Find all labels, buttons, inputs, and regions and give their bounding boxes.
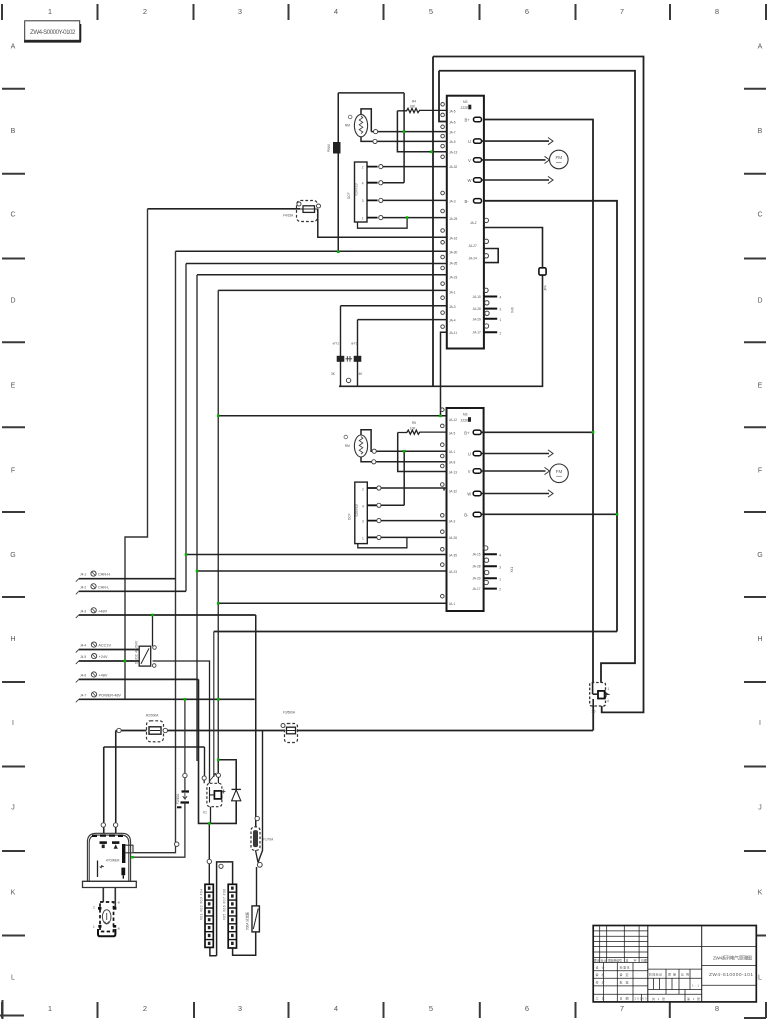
terminal strip XT1 [200,884,214,947]
fuse F2/10A inline on riser x=185 [176,773,189,807]
wire Y1 leg to JA-3 row [341,305,447,307]
arrowhead W [548,176,553,183]
svg-text:W: W [468,178,472,183]
svg-text:JA-29: JA-29 [473,317,482,321]
svg-text:第 1 张: 第 1 张 [687,996,700,1001]
svg-text:RM: RM [345,444,350,448]
arrowhead V [545,156,550,163]
svg-text:L: L [758,975,762,982]
svg-text:2: 2 [143,7,147,16]
svg-text:V: V [468,469,471,474]
svg-text:U: U [468,139,471,144]
svg-text:ZW4-S0000Y-0102: ZW4-S0000Y-0102 [30,29,76,36]
svg-text:500A 分流器: 500A 分流器 [245,911,250,930]
left edge row tick marks [2,89,25,936]
wire branch x=262.5 from rail down to F1 merge [258,731,263,863]
svg-text:JA-7: JA-7 [449,131,456,135]
svg-text:3: 3 [362,520,364,524]
fuse F1/70A (dark body) [251,816,274,850]
svg-text:⊕: ⊕ [118,901,121,905]
svg-text:JA-17: JA-17 [473,331,482,335]
svg-text:4: 4 [334,1004,338,1013]
svg-text:K1: K1 [203,811,207,815]
svg-text:J4-6: J4-6 [80,674,86,678]
svg-text:日期: 日期 [641,957,647,962]
plug outline right [125,845,133,853]
wire V phase lower motor [481,470,545,472]
wire row6 corner into relay box left edge [197,678,199,680]
title block texts [594,957,700,1001]
wire valve1 pinA to JA-32 row [383,166,447,168]
wire valve1 pinD to JA-25 row [383,217,447,219]
svg-text:R5: R5 [412,421,416,425]
svg-text:7: 7 [620,7,624,16]
wire valve1 pinB to riser x=404 [383,182,404,184]
svg-text:J4-7: J4-7 [80,693,86,697]
svg-text:PWM: PWM [327,144,331,152]
svg-text:4: 4 [334,7,338,16]
svg-text:F4/15A: F4/15A [283,214,294,218]
wire x=593 below connector X5 to fuse rail [592,706,594,731]
relay box outline (open) [199,679,237,823]
svg-text:V: V [468,158,471,163]
wire long horizontal y=631.5 [214,631,617,633]
main vertical dividers [648,926,702,1002]
wire loop stub y=92.9 from x=338 box [338,92,404,94]
wire JA-23 row from riser [197,274,447,276]
lower IC right side labels [464,430,471,517]
svg-text:2: 2 [93,906,95,910]
svg-text:+24V: +24V [99,655,108,659]
wire y=759.5 stub from riser to diode branch [218,760,236,761]
svg-text:JA-3: JA-3 [449,305,456,309]
wire W phase upper motor [482,179,550,181]
svg-text:更改单编号: 更改单编号 [608,957,622,962]
svg-text:5: 5 [429,7,433,16]
wire riser x=218.4 into relay [217,760,219,776]
top ruler column numbers [48,7,719,16]
wire valve2 pinD hook under box [358,537,407,547]
svg-text:共 1 张: 共 1 张 [652,996,665,1001]
wire F1 to merge point [256,850,259,862]
svg-text:Y2V/Y1V: Y2V/Y1V [355,182,359,196]
upper IC bottom-right connector X40 pins [473,288,515,335]
svg-text:JA-32: JA-32 [449,489,458,493]
wire feeder to F4 from far-left riser [148,208,301,210]
svg-text:#05 #06 #07 #08: #05 #06 #07 #08 [223,889,227,920]
svg-text:JA-32: JA-32 [449,165,458,169]
svg-text:F1/70A: F1/70A [263,838,274,842]
svg-text:JA-28: JA-28 [472,565,481,569]
svg-text:L: L [11,975,15,982]
svg-text:J4-3: J4-3 [80,609,86,613]
svg-text:DC/DC 48V/24V: DC/DC 48V/24V [135,640,139,664]
svg-text:设 计: 设 计 [596,964,605,969]
middle small verticals [654,969,690,1002]
svg-text:F2/10A: F2/10A [176,793,180,804]
wire row POWER-48V [79,698,255,700]
pin circle RM1 top wire [374,130,378,134]
svg-text:质量: 质量 [668,972,676,977]
arrowhead W lower [548,490,553,497]
terminal JP4 on x=542.5 [539,268,548,291]
wire row ACC [79,649,139,651]
svg-text:JA-1: JA-1 [449,450,456,454]
relay coil K1 (dashed) [202,773,225,823]
fuse F3/500A (dashed box) [281,711,298,743]
pin circle RM2 bottom wire [372,460,376,464]
wire valve1 pinC to JA-3 row [383,199,447,201]
svg-text:J4-1: J4-1 [80,573,86,577]
wire JA-30 row from riser [176,250,447,252]
svg-text:1: 1 [48,7,52,16]
svg-text:1: 1 [93,925,95,929]
svg-text:JA-23: JA-23 [449,570,458,574]
svg-text:3: 3 [500,308,502,312]
document number box top-left [24,21,81,42]
connector X5 (dashed plug, lower right) [590,683,610,714]
svg-text:POWER-48V: POWER-48V [99,693,122,697]
wire riser x=218.25 [217,290,219,775]
wire switch bottom loop to strip2 [233,932,256,955]
svg-text:2: 2 [362,488,364,492]
wire riser x=213.8 from y=631.5 to relay arrow [213,632,215,778]
svg-text:FM: FM [555,155,562,160]
svg-text:JA-15: JA-15 [472,553,481,557]
wire outer loop left vertical x=433 down to JA-2 loop line [432,57,434,387]
svg-text:J: J [758,805,762,812]
svg-text:M3: M3 [463,100,468,104]
green junction dots [124,130,619,858]
right edge row tick marks [744,89,766,1018]
svg-text:ZZ2E: ZZ2E [461,106,469,110]
battery top lead circles [101,823,105,827]
wire JA-35L row y=554.5 [186,554,447,556]
wire CAN-H riser x=175.5 [175,251,177,845]
upper IC left pin circles [441,103,445,329]
wire JA-11 drop to lower IC JA-12 [441,332,447,416]
wire B- lower to x=617 rail [481,513,617,515]
svg-text:3K: 3K [331,372,336,376]
svg-text:8: 8 [715,7,719,16]
fuse F4 (dashed box with fuse) [283,201,321,222]
bottom ruler column numbers [48,1004,719,1013]
svg-text:JA-3: JA-3 [449,200,456,204]
wire JA-1L row y=603.3 [218,602,446,604]
wire B- upper rail down x=617 [482,201,618,632]
svg-text:3: 3 [499,565,501,569]
wire R4 left leg down to JA-13 row [397,111,446,152]
pin circle on rail left [117,728,121,732]
svg-text:签 字: 签 字 [626,957,637,962]
svg-text:W: W [467,492,471,497]
wire RM2 top hook to JA-1L row [361,430,447,452]
svg-text:JA-35: JA-35 [449,553,458,557]
svg-text:M3: M3 [463,413,468,417]
svg-text:1: 1 [499,578,501,582]
svg-text:B: B [758,128,763,135]
svg-text:1: 1 [48,1004,52,1013]
svg-text:D: D [10,298,15,305]
battery posts [100,841,107,844]
svg-text:阶段标记: 阶段标记 [649,972,662,977]
svg-text:JA-23: JA-23 [449,275,458,279]
wire U phase lower motor [481,453,549,455]
svg-text:日 期: 日 期 [620,996,629,1001]
wire riser x=197 [196,275,198,761]
solenoid valve connector J5 (lower) [347,482,367,543]
wire DC/DC top riser to +48V row [152,615,154,646]
wire JA-7 row into IC with junction at x=404 [371,131,447,133]
svg-text:JA-5: JA-5 [449,431,456,435]
bottom-left corner trim mark [0,1000,24,1019]
wire B+ lower to x=593 rail [481,431,593,433]
svg-text:Y2V/Y1V: Y2V/Y1V [355,503,359,517]
wire valve2 pinD to JA-26L row [381,536,447,538]
wires battery bottom to key switch [103,888,115,908]
svg-text:批 准: 批 准 [620,980,629,985]
svg-text:X41: X41 [510,567,514,573]
svg-text:更改标记: 更改标记 [594,957,607,962]
svg-text:RM: RM [345,123,350,127]
wire valve2 pinB riser x=404.2 [403,451,405,505]
wire row CAN-L [79,590,186,592]
svg-text:JA-9: JA-9 [449,140,456,144]
svg-text:2: 2 [499,588,501,592]
wire RM2 bottom to JA-8L row [361,457,447,462]
svg-text:C: C [757,212,762,219]
valve1 pin stubs and circles [367,167,378,218]
wire JA-35 row from riser [186,263,447,265]
connector bar (black) [122,844,125,863]
svg-text:B: B [11,128,16,135]
svg-text:A: A [758,44,763,51]
wire valve2 pinC to JA-3L row [381,520,447,522]
svg-text:I: I [12,720,14,727]
svg-text:JA-28: JA-28 [473,307,482,311]
wire valve1 pinD hook under box [358,218,408,229]
svg-text:审 定: 审 定 [620,972,629,977]
wire battery B feed riser x=184.9 (row7 to battery) [134,699,185,857]
svg-text:2: 2 [143,1004,147,1013]
svg-text:1: 1 [362,536,364,540]
svg-text:CAN-H: CAN-H [98,573,110,577]
svg-text:DCF: DCF [347,192,351,199]
wire U phase upper motor [482,140,550,142]
left fine grid horizontals [593,931,648,994]
row labels [80,573,121,698]
bottom ruler tick bars [2,1002,766,1018]
svg-text:F: F [758,468,762,475]
svg-text:JP4: JP4 [544,285,548,291]
left fine grid verticals [600,926,639,963]
svg-text:JA-17: JA-17 [472,587,481,591]
svg-text:1: 1 [500,318,502,322]
wire V phase upper motor [482,159,546,161]
svg-text:4: 4 [362,504,364,508]
svg-text:4: 4 [607,699,609,703]
svg-text:K: K [11,890,16,897]
svg-text:4: 4 [500,296,502,300]
svg-text:G: G [10,552,15,559]
svg-text:JA-24: JA-24 [469,257,478,261]
pin circle RM1 bottom wire [373,139,377,143]
svg-text:ZZ2E: ZZ2E [461,418,469,422]
svg-text:校 对: 校 对 [596,980,605,985]
battery / power unit GB [83,833,137,887]
key switch SB (dashed with key) [93,901,121,937]
wire battery lead 1 drop [115,731,117,842]
row start ticks [76,579,79,703]
svg-text:3: 3 [362,199,364,203]
lower IC left pin labels [449,418,458,606]
pin circle RM2 top wire [372,449,376,453]
svg-text:JA-30: JA-30 [449,250,458,254]
svg-text:#01 #02 #03 #04: #01 #02 #03 #04 [200,889,204,920]
wire JA-1 row from riser [218,289,447,291]
svg-text:8: 8 [715,1004,719,1013]
wire RM1 top hook to JA-7 row [361,109,371,132]
svg-text:1: 1 [608,687,610,691]
wire JA-23L row y=571 [197,570,447,572]
svg-text:E: E [11,383,16,390]
svg-text:JA-5: JA-5 [449,110,456,114]
wire row +48V feed [79,614,256,616]
svg-text:H: H [10,636,15,643]
svg-text:ACC1V: ACC1V [98,644,111,648]
wire CAN-L riser x=186 [185,264,187,592]
svg-text:JA-1: JA-1 [449,290,456,294]
svg-text:JA-26: JA-26 [449,536,458,540]
svg-text:I: I [759,720,761,727]
svg-text:J4-5: J4-5 [80,655,86,659]
fuse R2/500A (dashed box) [146,714,168,742]
svg-text:E: E [758,383,763,390]
motor FM1 circle [550,150,569,169]
arrowhead U lower [548,450,553,457]
lower IC left pin circles [441,408,445,598]
svg-text:⊕: ⊕ [118,927,121,931]
svg-text:B-: B- [464,513,469,518]
arrowhead V lower [545,467,550,474]
upper IC right side labels B+ U V W B- [465,118,472,204]
wire R5 left leg down to JA-13L row [398,433,447,472]
wire battery lead 2 drop left [103,747,105,842]
IC U2 body [447,408,484,611]
wire riser x=147.5 with step to x=125 [125,209,148,700]
svg-text:F3/500A: F3/500A [283,711,296,715]
svg-text:B-: B- [465,199,470,204]
left lower verticals [604,963,642,1002]
wire +48V drop from row3 corner x=255.75 to fuse F1 [255,615,257,827]
heater RM1 (circle with zigzag) [345,114,368,136]
svg-text:JA-15: JA-15 [473,295,482,299]
lower IC right terminal rects [473,430,481,517]
wire row +48V b [79,678,197,680]
wire PWM rail x=338.25 down to green junction [337,93,339,252]
wire strip1 feeder from relay bottom [208,823,210,884]
wire relay feed drop x=204.5 [204,747,206,778]
wire valve1 pinB riser x=404 (ties RM1/JA-7 row to outer loop top) [403,93,405,183]
wire row +24V out [79,660,139,662]
svg-text:H: H [757,636,762,643]
svg-text:J: J [11,805,15,812]
svg-text:3: 3 [238,1004,242,1013]
svg-text:JA-35: JA-35 [449,261,458,265]
wire JA-12 link row (upper JA-11 to lower IC) [218,415,446,417]
connector tick PWM (filled) on x=338 rail [327,142,341,154]
wire row CAN-H [79,578,176,580]
svg-text:工 艺: 工 艺 [596,996,605,1001]
wire second loop (JA-6 loop) top [439,71,635,683]
svg-text:X40: X40 [511,307,515,313]
svg-text:6: 6 [525,7,529,16]
solenoid valve connector J3 (upper) [347,162,367,222]
svg-text:ZW4系列电气原理图: ZW4系列电气原理图 [713,955,752,962]
wire W phase lower motor [481,493,549,495]
wire RM1 bottom to JA-9 row [361,137,447,142]
svg-text:JA-8: JA-8 [449,461,456,465]
svg-text:R2/500A: R2/500A [146,714,159,718]
wire battery A feed riser x=175.5 with corner [134,845,176,853]
svg-text:A: A [11,44,16,51]
resistor R4 10K [397,100,446,113]
svg-text:2: 2 [362,166,364,170]
svg-text:JA-29: JA-29 [472,577,481,581]
svg-text:JA-16: JA-16 [449,236,458,240]
base plate [83,881,137,887]
svg-text:+48V: +48V [98,609,107,613]
svg-text:JA-25: JA-25 [449,217,458,221]
wire merge down to switch [256,867,258,906]
svg-text:JA-3: JA-3 [449,519,456,523]
svg-text:JA-6: JA-6 [449,120,456,124]
DC/DC converter block [135,640,157,667]
top ruler tick bars [2,4,766,20]
motor FM2 circle [550,464,569,483]
svg-text:JA-2: JA-2 [470,221,477,225]
svg-text:G: G [757,552,762,559]
svg-text:B+: B+ [465,118,471,123]
lower IC bottom-right connector X41 pins [472,546,514,592]
svg-text:7: 7 [620,1004,624,1013]
right horizontals [702,966,757,986]
wire outer loop top (B+ return loop) [433,57,644,713]
right edge row letters [757,44,762,982]
svg-text:K: K [758,890,763,897]
wire B+ upper rail down right side x=593 [482,120,594,683]
svg-text:10K: 10K [410,426,417,430]
upper IC left pin labels [449,110,458,335]
row pin circles [91,571,97,697]
left edge row letters [10,44,15,982]
wire F4 output down and to JA-16 row [318,209,447,237]
heater RM2 (circle with zigzag) [344,435,368,457]
svg-text:+POWER: +POWER [106,859,121,863]
bridge wire between strips [217,862,233,956]
svg-text:1: 1 [362,217,364,221]
valve2 pin stubs and circles [367,488,377,537]
svg-text:DCF: DCF [347,513,351,520]
svg-text:CAN-L: CAN-L [98,585,109,589]
wire second loop left vertical down to JA-6 pin [439,71,447,122]
wire main battery rail y=730.5 [116,730,593,732]
resistor R5 10K (lower) [398,421,447,434]
svg-text:审 核: 审 核 [596,972,605,977]
svg-text:FM: FM [556,469,563,474]
svg-text:U: U [468,452,471,457]
wire JA-2 loop to JP4 terminal [339,228,543,387]
